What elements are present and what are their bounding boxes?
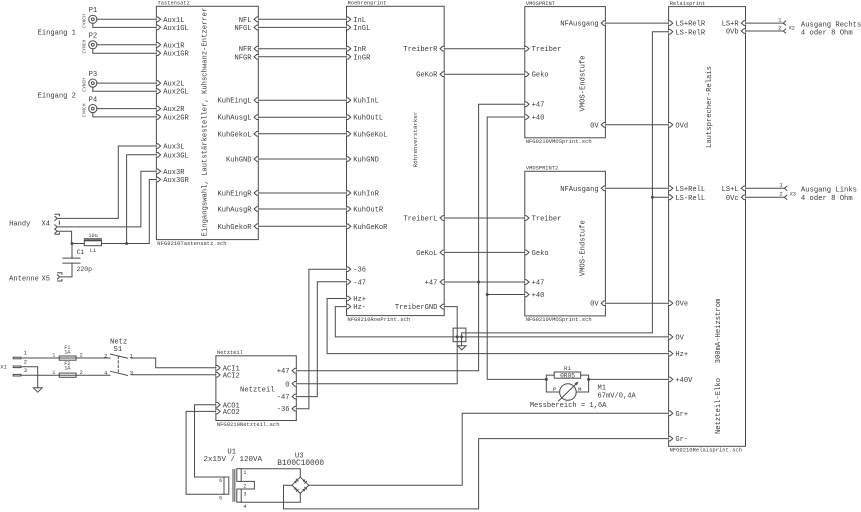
svg-text:+47: +47	[425, 280, 438, 288]
svg-text:LS+R: LS+R	[722, 21, 740, 29]
wire X1.3 to F2	[21, 374, 59, 376]
svg-text:+47: +47	[532, 102, 545, 110]
svg-text:NFGL: NFGL	[234, 25, 251, 33]
wire X1.1 to F1	[21, 357, 59, 359]
connector P4 (CINCH jack)	[82, 97, 98, 118]
wire NFAusgang2 to LS+RelL	[605, 187, 668, 189]
svg-text:0: 0	[285, 381, 289, 389]
svg-text:VMOS-Endstufe: VMOS-Endstufe	[579, 55, 587, 111]
wire net -47	[296, 282, 346, 397]
capacitor C1 220p	[63, 249, 92, 273]
connector X3 (Ausgang Links)	[779, 182, 857, 203]
wire net +40 riser	[487, 117, 546, 379]
svg-text:3: 3	[24, 367, 28, 374]
svg-text:220p: 220p	[77, 266, 93, 273]
wire net Hz- / OV	[335, 307, 668, 337]
svg-text:KuhGekoR: KuhGekoR	[217, 224, 252, 232]
svg-text:Aux2GL: Aux2GL	[163, 89, 189, 97]
wire GeKoR to VMOSPRINT Geko	[444, 73, 525, 75]
svg-text:CYNCH: CYNCH	[82, 103, 88, 117]
sheet module VMOSPRINT	[525, 1, 606, 145]
wire P4 shield to Aux2GR	[93, 113, 157, 117]
svg-text:InL: InL	[353, 17, 366, 25]
svg-text:X1: X1	[0, 363, 7, 370]
wire LS+R to X2.1	[746, 22, 784, 24]
svg-text:6: 6	[219, 478, 222, 484]
wire M1 right lead	[576, 379, 588, 392]
svg-text:1: 1	[52, 353, 55, 359]
svg-text:Aux3R: Aux3R	[163, 169, 185, 177]
svg-text:NFG9210VMOSprint.sch: NFG9210VMOSprint.sch	[526, 138, 592, 145]
svg-text:0Vc: 0Vc	[726, 195, 739, 203]
svg-text:1A: 1A	[64, 366, 71, 372]
junction junction shunt right	[587, 378, 590, 381]
bridge rectifier U3 B100C10000	[277, 452, 324, 493]
svg-text:Aux1GR: Aux1GR	[163, 51, 189, 59]
junction junction shunt left	[545, 378, 548, 381]
wire R1 left stub	[546, 375, 554, 379]
svg-text:Aux2GR: Aux2GR	[163, 114, 189, 122]
svg-text:Aux3L: Aux3L	[163, 144, 184, 152]
svg-text:KuhGekoL: KuhGekoL	[217, 131, 251, 139]
svg-text:3: 3	[243, 491, 246, 497]
svg-text:TreiberR: TreiberR	[403, 46, 438, 54]
wire NFGL-InGL	[258, 26, 346, 28]
svg-text:Treiber: Treiber	[532, 46, 562, 54]
svg-text:Aux2L: Aux2L	[163, 81, 184, 89]
wire P2 shield to Aux1GR	[93, 49, 157, 54]
wire net Hz+	[327, 299, 668, 354]
fuse F1 1A	[52, 345, 82, 360]
svg-text:CYNCH: CYNCH	[82, 39, 88, 53]
connector X2 (Ausgang Rechts)	[778, 16, 861, 37]
svg-text:LS+L: LS+L	[722, 186, 739, 194]
svg-text:10u: 10u	[88, 233, 97, 239]
svg-text:-47: -47	[277, 394, 290, 402]
wire TreiberL to VMOSPRINT2 Treiber	[444, 217, 525, 219]
svg-text:Netzteil: Netzteil	[217, 350, 243, 356]
wire net +40 to Relaisprint +40V	[589, 378, 669, 380]
wire LS+L to X3.1	[746, 187, 785, 189]
wire tap to Aux3GL	[127, 155, 157, 244]
svg-text:KuhInL: KuhInL	[353, 98, 379, 106]
wire P2 signal to Aux1R	[97, 44, 157, 46]
svg-text:67mV/0,4A: 67mV/0,4A	[598, 393, 637, 401]
wire net -36	[296, 269, 346, 409]
fuse F2 1A	[52, 361, 82, 377]
svg-text:KuhInR: KuhInR	[353, 191, 379, 199]
wire U1 pins 2-3 center tap	[241, 481, 254, 489]
wire bridge - to Gr-	[284, 439, 669, 509]
svg-text:NFGR: NFGR	[234, 54, 252, 62]
svg-text:LS+RelL: LS+RelL	[675, 186, 705, 194]
svg-text:Aux3GL: Aux3GL	[163, 152, 189, 160]
connector X4 (Handy input)	[9, 214, 59, 234]
svg-text:KuhOutR: KuhOutR	[353, 207, 384, 215]
wire X4 pin1 to Aux3L	[57, 146, 156, 218]
wire GeKoL to VMOSPRINT2 Geko	[444, 251, 525, 253]
wire P3 shield to Aux2GL	[93, 87, 157, 91]
svg-text:P4: P4	[89, 97, 98, 105]
svg-text:Gr-: Gr-	[675, 436, 688, 444]
junction star point right	[460, 335, 463, 338]
svg-text:-36: -36	[353, 267, 366, 275]
switch S1 Netz (2-pole)	[104, 339, 134, 377]
svg-text:1: 1	[779, 182, 783, 189]
svg-text:InGR: InGR	[353, 54, 371, 62]
wire ACO2 to U1 pin5	[186, 411, 224, 494]
svg-text:+40V: +40V	[675, 377, 693, 385]
svg-text:KuhOutL: KuhOutL	[353, 115, 383, 123]
svg-text:0Vb: 0Vb	[726, 29, 739, 37]
wire F2 to S1 lower pole	[76, 374, 110, 376]
svg-text:+47: +47	[532, 280, 545, 288]
wire P1 shield to Aux1GL	[93, 23, 157, 27]
svg-text:Röhrenverstärker: Röhrenverstärker	[412, 112, 419, 168]
ground symbol (mains)	[33, 388, 42, 392]
wire C1 to X5	[60, 263, 72, 277]
svg-text:S1: S1	[114, 346, 123, 354]
svg-text:Aux3GR: Aux3GR	[163, 177, 189, 185]
connector X1 (mains)	[0, 350, 27, 376]
svg-text:2: 2	[243, 483, 246, 489]
wire net +47 riser	[296, 104, 525, 371]
svg-text:Treiber: Treiber	[532, 216, 562, 224]
svg-text:VMOSPRINT2: VMOSPRINT2	[526, 166, 558, 172]
svg-text:Geko: Geko	[532, 72, 549, 80]
svg-text:LS+RelR: LS+RelR	[675, 21, 706, 29]
svg-text:P1: P1	[89, 7, 98, 15]
svg-text:Antenne: Antenne	[9, 276, 39, 284]
sheet module Roehrenprint	[347, 1, 445, 323]
svg-text:KuhGeKoL: KuhGeKoL	[353, 131, 387, 139]
wire KuhAusgR-KuhOutR	[258, 208, 346, 210]
svg-text:InGL: InGL	[353, 25, 370, 33]
wire KuhEingR-KuhInR	[258, 192, 346, 194]
svg-text:+47: +47	[277, 368, 290, 376]
svg-text:NFAusgang: NFAusgang	[560, 186, 598, 194]
svg-text:NFG9210Netzteil.sch: NFG9210Netzteil.sch	[217, 421, 280, 428]
svg-text:Ausgang Links: Ausgang Links	[801, 186, 857, 194]
wire NFR-InR	[258, 48, 346, 50]
svg-text:Hz-: Hz-	[353, 304, 366, 312]
svg-text:Aux2R: Aux2R	[163, 106, 185, 114]
wire NFGR-InGR	[258, 56, 346, 58]
wire NFL-InL	[258, 18, 346, 20]
svg-text:P3: P3	[89, 71, 98, 79]
svg-text:1: 1	[24, 350, 28, 357]
svg-text:Ausgang Rechts: Ausgang Rechts	[801, 21, 861, 29]
svg-text:ACI2: ACI2	[223, 372, 240, 380]
svg-text:KuhGND: KuhGND	[226, 157, 252, 165]
wire net +47 branch Roehrenprint/VMOSPRINT2	[444, 281, 525, 283]
svg-text:X5: X5	[42, 276, 51, 284]
svg-text:Relaisprint: Relaisprint	[670, 1, 706, 7]
junction junction LS-RelL	[651, 196, 654, 199]
svg-text:B100C10000: B100C10000	[277, 460, 324, 468]
svg-text:+40: +40	[532, 115, 545, 123]
svg-text:KuhGeKoR: KuhGeKoR	[353, 224, 388, 232]
svg-text:KuhEingL: KuhEingL	[217, 98, 251, 106]
svg-text:0V: 0V	[590, 301, 599, 309]
svg-text:L1: L1	[90, 248, 96, 254]
svg-text:2: 2	[778, 24, 782, 31]
svg-text:VMOSPRINT: VMOSPRINT	[526, 1, 556, 7]
svg-text:OVd: OVd	[675, 122, 688, 130]
star ground junction box	[453, 328, 466, 342]
svg-text:VMOS-Endstufe: VMOS-Endstufe	[579, 220, 587, 276]
wire star point to ground	[461, 337, 463, 346]
wire F1 to S1	[76, 357, 110, 359]
svg-text:2: 2	[779, 191, 783, 198]
svg-text:2x15V / 120VA: 2x15V / 120VA	[204, 456, 263, 464]
svg-text:NFG9210Relaisprint.sch: NFG9210Relaisprint.sch	[670, 447, 743, 454]
svg-text:Tastensatz: Tastensatz	[158, 1, 190, 7]
svg-text:OV: OV	[675, 334, 684, 342]
wire U1 pin4 to bridge	[241, 493, 300, 502]
wire node to L1	[72, 243, 84, 245]
svg-text:+40: +40	[532, 292, 545, 300]
connector P1 (CINCH jack)	[82, 7, 98, 28]
svg-text:-47: -47	[353, 279, 366, 287]
wire X1.2 to ground	[21, 367, 38, 388]
svg-text:X2: X2	[789, 25, 795, 31]
svg-text:LS-RelL: LS-RelL	[675, 195, 705, 203]
svg-text:KuhAusgR: KuhAusgR	[217, 207, 252, 215]
wire ACO1 to U1 pin6	[195, 405, 225, 477]
svg-text:Gr+: Gr+	[675, 411, 688, 419]
svg-text:KuhGND: KuhGND	[353, 157, 379, 165]
svg-text:LS-RelR: LS-RelR	[675, 29, 706, 37]
wire X4 pin2 to Aux3R	[57, 171, 156, 227]
connector P3 (CINCH jack)	[82, 71, 98, 92]
svg-text:Eingang 2: Eingang 2	[38, 92, 76, 100]
meter M1 67mV/0,4A	[530, 381, 637, 410]
svg-text:TreiberL: TreiberL	[403, 216, 437, 224]
svg-text:KuhAusgL: KuhAusgL	[217, 115, 251, 123]
transformer U1 2x15V / 120VA	[204, 449, 263, 510]
wire P3 signal to Aux2L	[97, 82, 157, 84]
svg-text:Netzteil: Netzteil	[240, 386, 275, 394]
inductor L1 10u	[84, 233, 101, 254]
svg-text:5: 5	[219, 495, 222, 501]
wire KuhGND-KuhGND	[258, 158, 346, 160]
svg-text:300mA-Heizstrom: 300mA-Heizstrom	[715, 299, 723, 364]
svg-text:Aux1R: Aux1R	[163, 42, 185, 50]
svg-text:NFG9210VMOSprint.sch: NFG9210VMOSprint.sch	[526, 316, 592, 323]
svg-text:R1: R1	[564, 365, 571, 372]
svg-text:X4: X4	[42, 221, 51, 229]
wire LS-RelL branch	[652, 196, 668, 198]
junction junction Aux3GL tap	[125, 242, 128, 245]
svg-text:OVe: OVe	[675, 301, 688, 309]
svg-text:Messbereich = 1,6A: Messbereich = 1,6A	[530, 402, 607, 410]
wire P4 signal to Aux2R	[97, 108, 157, 110]
svg-text:4 oder 8 Ohm: 4 oder 8 Ohm	[801, 195, 853, 203]
wire VMOSPRINT 0V to OVd	[605, 124, 668, 126]
svg-text:Netzteil-Elko: Netzteil-Elko	[715, 378, 723, 434]
svg-text:Handy: Handy	[9, 221, 31, 229]
wire L1 to Aux3GR	[102, 180, 157, 244]
svg-text:1: 1	[243, 470, 246, 476]
wire KuhGekoL-KuhGeKoL	[258, 133, 346, 135]
wire X4 pin3 to antenna node	[57, 231, 71, 243]
svg-text:GeKoL: GeKoL	[416, 250, 437, 258]
wire S1.1 to ACI1	[131, 358, 216, 368]
svg-text:NFG9210Tastensatz.sch: NFG9210Tastensatz.sch	[157, 240, 226, 247]
svg-text:CYNCH: CYNCH	[82, 14, 88, 28]
svg-text:1A: 1A	[64, 350, 71, 356]
sheet module VMOSPRINT2	[525, 166, 606, 324]
svg-text:Aux1GL: Aux1GL	[163, 25, 189, 33]
wire KuhGekoR-KuhGeKoR	[258, 225, 346, 227]
svg-text:2: 2	[104, 352, 108, 359]
svg-text:Eingang 1: Eingang 1	[38, 30, 76, 38]
junction node X4-gnd / C1 / L1	[71, 242, 74, 245]
svg-text:CYNCH: CYNCH	[82, 78, 88, 92]
sheet module Netzteil	[216, 350, 296, 428]
resistor R1 0R05 (shunt)	[554, 365, 581, 379]
svg-text:0V: 0V	[590, 122, 599, 130]
svg-text:Aux1L: Aux1L	[163, 17, 184, 25]
svg-text:ACO2: ACO2	[223, 409, 240, 417]
svg-text:Hz+: Hz+	[675, 351, 688, 359]
svg-text:GeKoR: GeKoR	[416, 72, 438, 80]
connector X5 (Antenne)	[9, 273, 62, 284]
svg-text:4: 4	[104, 369, 108, 376]
svg-text:3: 3	[130, 369, 134, 376]
wire P1 signal to Aux1L	[97, 18, 157, 20]
svg-text:Roehrenprint: Roehrenprint	[348, 1, 387, 7]
wire U1 pin1 to bridge	[241, 469, 300, 478]
wire R1 right stub	[581, 375, 589, 379]
svg-text:Geko: Geko	[532, 250, 549, 258]
wire net +40 branch VMOSPRINT2	[487, 294, 525, 296]
wire NFAusgang to LS+RelR	[605, 22, 668, 24]
sheet module Tastensatz	[156, 1, 258, 247]
wire node to C1	[71, 244, 73, 259]
wire TreiberR to VMOSPRINT Treiber	[444, 48, 525, 50]
wire VMOSPRINT2 0V to OVe	[605, 302, 668, 304]
sheet module Relaisprint	[669, 1, 746, 454]
svg-text:P2: P2	[89, 33, 98, 41]
svg-text:NFL: NFL	[239, 17, 252, 25]
svg-text:1: 1	[778, 16, 782, 23]
svg-text:-36: -36	[277, 406, 290, 414]
svg-text:InR: InR	[353, 46, 367, 54]
wire KuhAusgL-KuhOutL	[258, 116, 346, 118]
wire 0Vb to X2.2	[746, 30, 784, 32]
svg-text:C1: C1	[77, 249, 85, 256]
svg-text:TreiberGND: TreiberGND	[395, 304, 438, 312]
svg-text:1: 1	[52, 370, 55, 376]
svg-text:NFG9210RoePrint.sch: NFG9210RoePrint.sch	[347, 316, 410, 323]
svg-text:0R05: 0R05	[560, 372, 575, 379]
wire 0Vc to X3.2	[746, 196, 785, 198]
wire M1 left lead	[546, 379, 559, 392]
svg-text:4: 4	[243, 504, 246, 510]
svg-text:4 oder 8 Ohm: 4 oder 8 Ohm	[801, 29, 853, 37]
svg-text:KuhEingR: KuhEingR	[217, 191, 252, 199]
svg-text:M1: M1	[598, 384, 607, 392]
wire S1.3 to ACI2	[131, 374, 216, 376]
svg-text:Eingangswahl, Lautstärkestelle: Eingangswahl, Lautstärkesteller, Kuhschw…	[201, 8, 209, 237]
wire net 0 (star point riser)	[296, 307, 457, 384]
junction star point left	[456, 335, 459, 338]
svg-text:Hz+: Hz+	[353, 296, 366, 304]
wire KuhEingL-KuhInL	[258, 99, 346, 101]
connector P2 (CINCH jack)	[82, 33, 98, 54]
junction junction +40	[486, 293, 489, 296]
svg-text:NFR: NFR	[239, 46, 253, 54]
wire bridge + to Gr+	[309, 413, 669, 485]
junction junction +47	[477, 281, 480, 284]
svg-text:NFAusgang: NFAusgang	[560, 21, 598, 29]
svg-text:Lautsprecher-Relais: Lautsprecher-Relais	[706, 66, 714, 148]
ground symbol (star point)	[458, 346, 466, 350]
svg-text:X3: X3	[790, 192, 796, 198]
svg-text:2: 2	[24, 358, 28, 365]
wire net LS-RelR	[462, 32, 669, 337]
